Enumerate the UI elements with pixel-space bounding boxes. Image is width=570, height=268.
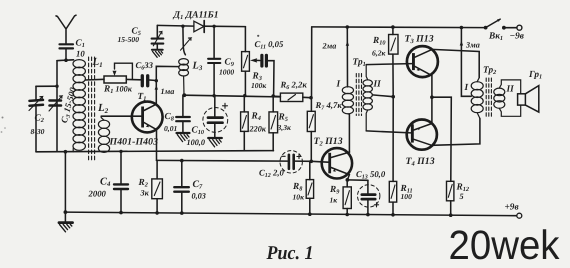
node R6/R7 — [309, 96, 313, 100]
svg-text:L2: L2 — [97, 102, 109, 115]
chassis mid-rail — [36, 151, 274, 152]
resistor R4 — [241, 96, 249, 151]
node 2ма junction on rail — [346, 25, 350, 29]
wire emitter to C13 — [347, 179, 368, 181]
resistor R6 — [273, 93, 311, 101]
wire Тр1 II top to T3 base — [366, 64, 412, 65]
resistor R8 — [306, 161, 313, 216]
antenna W1 — [56, 15, 76, 60]
wire rail to L3 with tuning arrow — [181, 26, 192, 55]
svg-text:Рис. 1: Рис. 1 — [266, 243, 314, 264]
svg-text:L3: L3 — [192, 61, 203, 73]
capacitor C1 — [60, 44, 74, 48]
ground (main chassis) — [59, 212, 73, 232]
node antenna junction — [64, 58, 68, 62]
wire T1 emitter down — [156, 130, 158, 161]
capacitor C7 — [174, 161, 189, 215]
capacitor C11 — [262, 55, 267, 66]
ferrite rod (dashed) — [89, 57, 95, 160]
svg-text:I: I — [464, 83, 469, 93]
svg-text:10: 10 — [76, 49, 85, 59]
svg-text:3ма: 3ма — [465, 41, 480, 50]
transformer Тр1 winding II — [363, 65, 372, 131]
resistor R5 — [269, 96, 278, 151]
svg-text:Тр2: Тр2 — [483, 66, 496, 77]
svg-text:3к: 3к — [140, 189, 150, 198]
wire tank left vertical — [56, 61, 58, 152]
svg-text:Т2 П13: Т2 П13 — [314, 136, 343, 148]
node C7 — [180, 159, 184, 163]
switch Вк1 — [484, 19, 522, 30]
svg-text:R6 2,2к: R6 2,2к — [280, 80, 308, 92]
svg-text:1000: 1000 — [219, 68, 234, 77]
svg-text:С9: С9 — [225, 58, 235, 69]
svg-text:П401-П403: П401-П403 — [109, 137, 159, 148]
node on +rail at ground — [64, 210, 68, 214]
svg-text:−9в: −9в — [510, 32, 524, 42]
svg-text:Т3 П13: Т3 П13 — [405, 34, 434, 46]
svg-text:С4: С4 — [100, 177, 111, 189]
node center tap — [391, 95, 395, 99]
resistor R1 (variable, regeneration) — [104, 63, 132, 83]
inductor L3 — [179, 59, 189, 96]
+9в bottom rail — [65, 212, 516, 216]
node T2 base — [310, 160, 314, 164]
svg-text:2000: 2000 — [88, 189, 107, 199]
capacitor C4 — [114, 151, 128, 214]
battery terminal circle — [517, 213, 522, 218]
resistor R12 — [447, 181, 454, 217]
capacitor C3 (variable) — [49, 96, 62, 111]
ink speck — [257, 35, 259, 37]
svg-text:R8: R8 — [292, 182, 303, 193]
transistor T4 (П13) — [407, 120, 437, 150]
wire tap to R11 — [392, 97, 394, 182]
svg-text:R1 100к: R1 100к — [103, 85, 133, 96]
svg-text:L1: L1 — [92, 56, 103, 69]
svg-text:R9: R9 — [329, 185, 340, 196]
svg-text:0,03: 0,03 — [192, 192, 206, 201]
node T2 emitter — [346, 178, 350, 182]
detector mid-rail — [184, 95, 280, 97]
capacitor C9 — [208, 26, 220, 95]
svg-text:Вк1: Вк1 — [488, 32, 503, 43]
wire C11 down to node — [268, 61, 274, 96]
wire tank C2 stub — [36, 85, 57, 87]
node C10 top — [214, 95, 216, 97]
svg-text:R5: R5 — [278, 113, 288, 124]
resistor R2 — [152, 160, 163, 214]
wire T2 collector up to Тр1 — [348, 114, 350, 152]
transformer Тр1 core (dashed) — [356, 74, 361, 116]
transformer Тр2 winding II — [494, 80, 521, 116]
ink specks left edge — [2, 117, 4, 119]
node ground drop — [64, 150, 68, 154]
inductor L1 (on ferrite rod) — [57, 60, 85, 152]
svg-text:С13 50,0: С13 50,0 — [356, 169, 386, 181]
svg-text:С10: С10 — [192, 126, 205, 137]
svg-text:С11 0,05: С11 0,05 — [255, 39, 285, 51]
wire Тр1 II center tap — [372, 95, 393, 97]
svg-text:6,2к: 6,2к — [372, 49, 385, 58]
capacitor C13 (electrolytic, dashed circle) — [358, 180, 380, 216]
resistor R3 (volume potentiometer) — [242, 27, 250, 96]
diode Д1 — [194, 21, 204, 33]
svg-text:1ма: 1ма — [161, 87, 175, 96]
node 3ма junction on rail — [460, 26, 464, 30]
svg-text:Тр1: Тр1 — [353, 58, 366, 69]
svg-text:100: 100 — [401, 192, 413, 201]
svg-text:С2: С2 — [35, 114, 44, 125]
node R3/R4 — [243, 94, 246, 97]
top-right rail — [312, 26, 486, 29]
svg-text:II: II — [506, 85, 515, 95]
svg-text:20wek: 20wek — [449, 222, 560, 268]
svg-text:3,3к: 3,3к — [277, 123, 291, 132]
svg-text:+9в: +9в — [505, 203, 519, 213]
wire T4 collector to Тр2 I bottom — [432, 118, 480, 145]
wire top of tank — [57, 59, 74, 62]
wire T3 emitter down — [431, 76, 433, 98]
node R10 on rail — [391, 25, 395, 29]
svg-text:R7 4,7к: R7 4,7к — [315, 100, 343, 112]
wire T2 emitter down — [347, 175, 349, 180]
capacitor C5 (variable) — [152, 25, 164, 57]
svg-text:R10: R10 — [372, 36, 386, 47]
svg-text:С8: С8 — [165, 112, 175, 123]
svg-text:220к: 220к — [249, 125, 267, 134]
wire emitter bus to T4 emitter — [431, 97, 433, 123]
wire R1 to C6 — [126, 78, 140, 80]
transistor T2 (П13) — [311, 148, 352, 178]
resistor R7 — [307, 98, 315, 162]
wire Тр1 II bottom to T4 base — [366, 131, 411, 133]
svg-text:Т1: Т1 — [138, 92, 147, 103]
node stub junction — [55, 85, 58, 88]
svg-text:1к: 1к — [330, 196, 338, 205]
node C4 on mid-rail — [119, 150, 122, 153]
svg-text:Гр1: Гр1 — [528, 70, 542, 81]
node C11/R5/R6 — [271, 94, 275, 98]
transistor T3 (П13) — [407, 46, 438, 77]
capacitor C8 to chassis — [176, 95, 190, 141]
capacitor C12 (electrolytic, dashed circle) — [280, 151, 302, 173]
svg-text:15-500: 15-500 — [118, 35, 140, 44]
wire rail to Тр2 I center tap with 3ма arrow — [460, 28, 472, 97]
svg-text:0,01: 0,01 — [164, 124, 177, 133]
node C6/collector — [155, 79, 158, 82]
wire T1 collector up with 1ма arrow — [155, 66, 179, 104]
wire L1 tap to R1 — [86, 78, 104, 81]
svg-text:I: I — [336, 80, 341, 90]
svg-text:С633: С633 — [136, 60, 154, 72]
svg-text:100к: 100к — [251, 81, 266, 90]
loudspeaker Гр1 — [518, 86, 539, 113]
capacitor C2 (variable) — [29, 86, 43, 151]
node L3 bottom / detector rail — [182, 93, 186, 97]
wire L2 to T1 base — [101, 115, 141, 117]
svg-text:Д1 ДА11Б1: Д1 ДА11Б1 — [173, 10, 219, 22]
node emitter bus — [430, 95, 434, 99]
svg-text:2ма: 2ма — [322, 42, 337, 51]
svg-text:R4: R4 — [251, 112, 261, 123]
svg-text:II: II — [373, 80, 382, 90]
wire emitter bus to R12 — [432, 97, 451, 181]
wire rail corner down through R7 — [311, 27, 313, 98]
wire rail to Тр1 primary with 2ма arrow — [346, 27, 349, 87]
resistor R9 — [343, 180, 351, 216]
resistor R10 — [389, 27, 398, 97]
wire C6 to collector node — [149, 79, 156, 82]
wire to ground — [64, 152, 66, 212]
top-left rail — [157, 25, 245, 26]
node L3 top on rail — [181, 25, 184, 28]
resistor R11 — [389, 181, 396, 216]
svg-text:Т4 П13: Т4 П13 — [406, 156, 435, 168]
capacitor C6 — [142, 76, 147, 86]
transformer Тр2 winding I — [471, 78, 483, 119]
transformer Тр1 winding I — [342, 87, 353, 115]
svg-text:10к: 10к — [293, 193, 305, 202]
pot wiper arrow to C11 — [250, 58, 260, 62]
svg-text:5: 5 — [460, 192, 464, 201]
emitter audio line to T2 — [157, 159, 312, 162]
svg-text:100,0: 100,0 — [187, 138, 205, 147]
transformer Тр2 core (dashed) — [486, 78, 491, 118]
node C9 top — [212, 25, 215, 28]
node C9 bottom — [212, 94, 215, 97]
svg-text:R2: R2 — [138, 178, 148, 189]
capacitor C10 (electrolytic, dashed circle) to chassis — [203, 96, 228, 147]
svg-text:С7: С7 — [193, 179, 204, 191]
wire T3 collector to Тр2 I top — [432, 49, 479, 77]
inductor L2 — [98, 116, 109, 152]
transistor T1 (П401-П403) — [132, 102, 163, 133]
svg-text:8-30: 8-30 — [31, 127, 45, 136]
svg-text:С12 2,0: С12 2,0 — [259, 168, 284, 180]
svg-text:С1: С1 — [76, 39, 85, 50]
